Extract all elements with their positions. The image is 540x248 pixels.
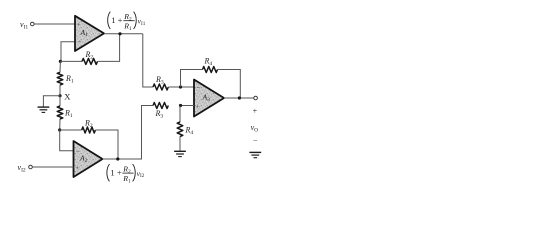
wire R2 to A1 output [98,34,120,62]
wire vI2 to A2 + input [32,166,73,168]
resistor R1 (upper) [57,72,63,85]
output terminal vO [254,96,258,100]
wire vI1 to A1 + input [34,23,75,25]
wire R1 lower to junction B [59,119,61,130]
wire R4 to A3 output [218,70,241,99]
wire X to ground [43,96,60,107]
label formula (1 + R2/R1)vI2 [107,164,145,184]
wire A2 output [103,158,142,160]
wire A3 output [224,97,254,99]
wire R4 feedback loop up [181,70,203,88]
input terminal vI1 [31,22,35,26]
svg-text:1 +: 1 + [111,15,122,25]
vertical chain: wire junction A down to R1 upper [59,61,61,72]
node A3 + input [179,104,182,107]
svg-text:−: − [78,38,82,46]
svg-text:+: + [253,106,258,115]
node X [58,94,61,97]
wire A1 output down to R3 top [143,34,153,87]
wire R3 bottom to A2 output [119,106,153,160]
wire A3 + input down to R4 [179,106,181,123]
resistor R3 (top) [153,84,168,90]
node A3 output [238,96,241,99]
op-amp A3 [194,80,224,117]
ground (node X) [38,107,50,112]
op-amp A2 [74,141,103,177]
wire R1 upper to node X [59,85,61,96]
ground (output reference) [249,152,261,157]
wire A1 - input feedback [61,42,75,62]
svg-text:−: − [196,84,200,92]
node B (A2 inverting junction) [58,128,61,131]
resistor R2 (A2 feedback) [82,127,96,133]
node A1 output [118,32,121,35]
svg-text:−: − [253,137,258,146]
ground (A3 + input) [174,151,186,156]
svg-text:+: + [77,22,81,29]
resistor R4 (feedback) [203,67,218,73]
wire junction B to A2 - input [60,130,74,151]
wire R2 bottom to A2 output [95,130,118,159]
resistor R2 (A1 feedback) [82,58,97,64]
wire junction B to R2 bottom [60,129,82,131]
wire A1 output [104,33,143,35]
svg-text:1 +: 1 + [110,168,121,178]
svg-text:X: X [64,92,71,102]
svg-text:−: − [76,147,80,155]
svg-text:+: + [75,165,79,172]
op-amp A1 [75,16,104,51]
node A2 output [116,157,119,160]
wire R4 to ground [179,137,181,151]
wire R3 top to A3 - input [168,86,194,88]
node A3 - input [179,85,182,88]
wire X to R1 lower [59,96,61,106]
resistor R1 (lower) [57,106,63,119]
resistor R3 (bottom) [153,103,168,109]
wire junction to R2 [60,60,82,62]
resistor R4 (grounded) [177,122,183,137]
node A (A1 inverting junction) [59,60,62,63]
wire A3 + input [181,105,195,107]
label formula (1 + R2/R1)vI1 [108,12,146,32]
svg-text:+: + [196,103,200,110]
input terminal vI2 [29,165,33,169]
